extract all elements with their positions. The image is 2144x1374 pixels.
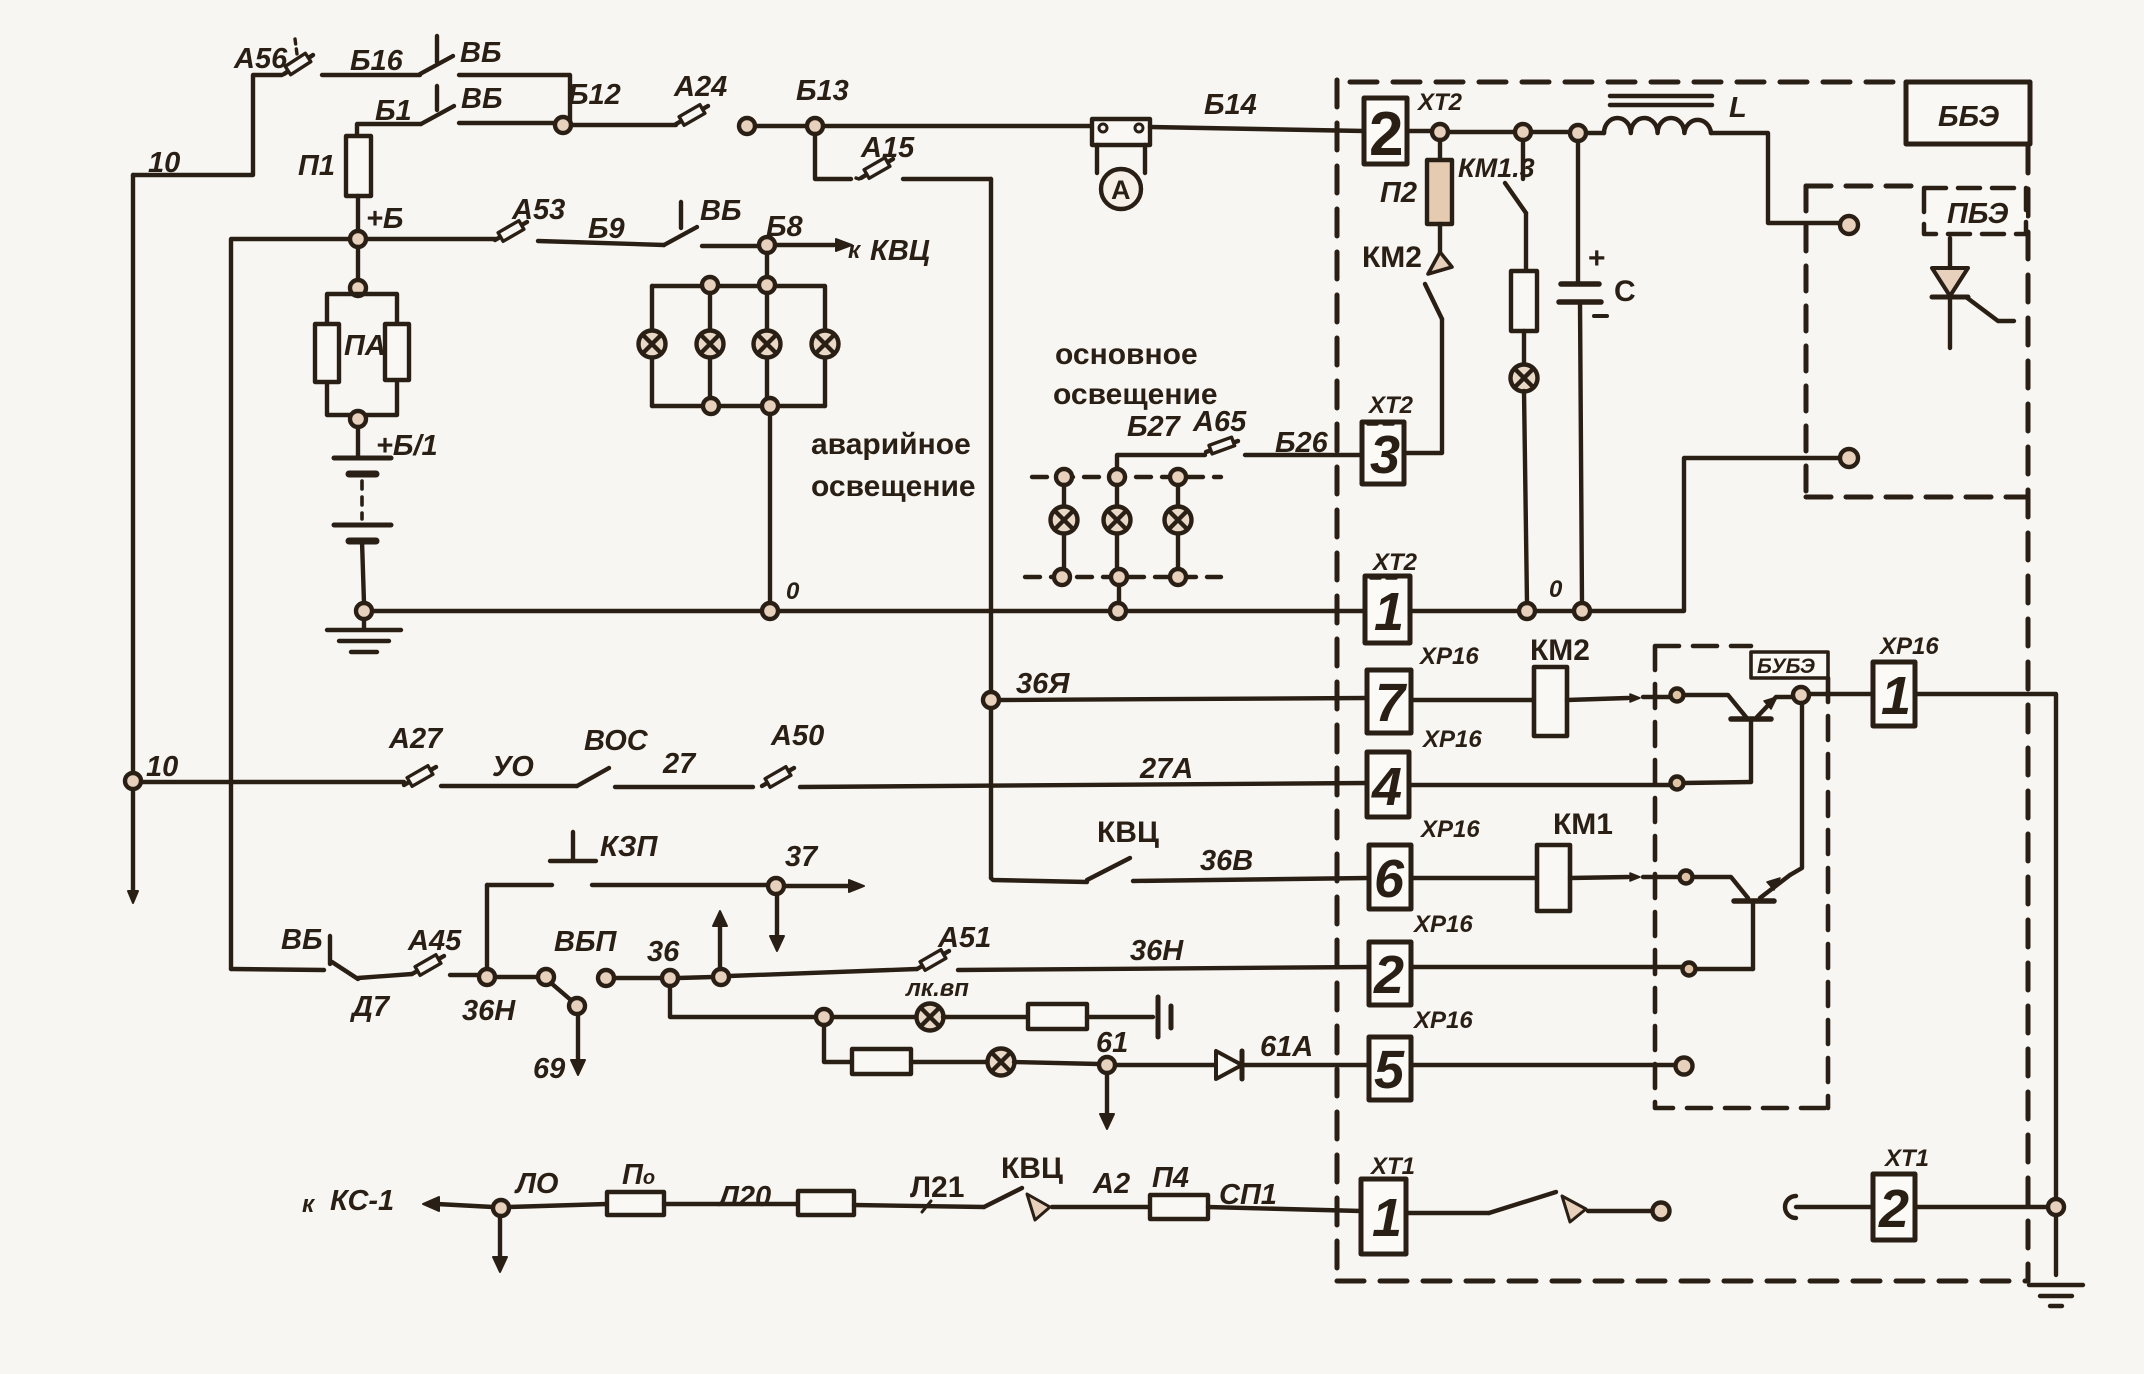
wire +B/1 to battery: [356, 427, 360, 456]
svg-text:+Б/1: +Б/1: [376, 430, 438, 462]
ammeter legs: [1097, 145, 1145, 173]
svg-text:2: 2: [1369, 100, 1403, 169]
wire to lamp LK.VP: [832, 1015, 917, 1019]
small arrowhead into BUBE (KM1 line): [1630, 873, 1640, 881]
svg-text:ХТ2: ХТ2: [1416, 89, 1463, 116]
svg-text:Б16: Б16: [350, 45, 404, 77]
ammeter shunt rect: [1092, 119, 1150, 145]
wire branch from node 36 down: [670, 986, 816, 1017]
connector XP16 pin 5 box: [1369, 1037, 1411, 1100]
fuse P2 wire top: [1438, 140, 1442, 160]
fuse body (L20 line): [798, 1191, 854, 1215]
diode V1: [1216, 1051, 1242, 1079]
connector XT2 pin 2 box: [1364, 98, 1407, 164]
wire 27A to connector XP16-4: [800, 783, 1367, 787]
svg-text:1: 1: [1374, 582, 1404, 642]
wire XP16-7 to relay KM2 coil: [1411, 698, 1534, 702]
wire to VBP common: [495, 975, 539, 979]
transistor T2 collector down: [1751, 903, 1755, 969]
svg-text:А50: А50: [770, 720, 824, 752]
wire VBP to node 36 branch: [614, 976, 662, 980]
svg-text:2: 2: [1878, 1179, 1909, 1239]
connector XT2 pin 3 box: [1362, 422, 1404, 484]
wire to terminal T2: [1643, 875, 1678, 879]
battery cell 2 long plate: [334, 523, 391, 528]
contact KM1.3 blade: [1505, 183, 1526, 213]
wire from VB2 to node B12: [459, 121, 555, 125]
terminal circle KM1 line: [1680, 871, 1693, 884]
breaker A27 body: [407, 766, 433, 787]
transistor T1 collector down: [1749, 721, 1753, 782]
wire SP1 to connector XT1-1: [1208, 1207, 1361, 1211]
arrowhead 37 right: [849, 880, 864, 892]
thyristor cathode wire: [1948, 297, 1952, 348]
svg-text:1: 1: [1372, 1188, 1402, 1248]
contact KVC blade (bottom row): [984, 1188, 1022, 1207]
wire net 10 left rail vertical: [131, 175, 135, 893]
svg-text:ВБП: ВБП: [554, 926, 617, 958]
connector XP16 pin 7 box: [1367, 670, 1411, 733]
node top of KM1.3: [1515, 124, 1531, 140]
svg-text:6: 6: [1374, 849, 1405, 909]
node VBP common: [538, 969, 554, 985]
wire k KS-1 with arrow: [437, 1204, 493, 1207]
block PBE dashed bottom edge: [1806, 495, 2026, 500]
wire XP16-1 to right rail: [1915, 694, 2056, 1275]
wire 69 down arrow: [576, 1014, 580, 1062]
node top of C: [1570, 125, 1586, 141]
block PBE label box dashed: [1924, 188, 2026, 234]
svg-text:ВБ: ВБ: [700, 195, 741, 227]
svg-text:61А: 61А: [1260, 1031, 1313, 1063]
svg-text:КМ1: КМ1: [1553, 808, 1613, 841]
battery cell 1 long plate: [334, 456, 391, 461]
wire terminal to T2 collector: [1696, 967, 1753, 971]
svg-text:освещение: освещение: [811, 470, 976, 503]
wire XP16-2 out to terminal: [1411, 965, 1681, 969]
node 36 branch lamp circuit: [662, 970, 678, 986]
wire P1 to node +B: [356, 196, 360, 231]
switch VOS blade: [577, 768, 609, 786]
wire resistor to chassis ground: [1087, 1015, 1153, 1019]
svg-text:Б8: Б8: [766, 211, 804, 243]
wire from VB1 to node B12: [459, 75, 570, 120]
node 0 net under capacitor: [1574, 603, 1590, 619]
cabinet boundary dashed left vertical: [1335, 80, 1340, 1281]
wire net 10 top horizontal to A56: [133, 75, 282, 175]
wire lamp bank down to 0 bus: [768, 414, 772, 603]
connector XP16 pin 4 box: [1367, 752, 1409, 817]
node main rail col1: [1056, 469, 1072, 485]
wire rail x991 corner to KVC: [991, 878, 1087, 882]
breaker A65 blade: [1206, 441, 1238, 452]
wire 37 right with arrow: [784, 884, 850, 888]
arrowhead 37 down: [770, 936, 784, 951]
wire to node B13: [755, 124, 807, 128]
svg-text:36Н: 36Н: [1130, 935, 1184, 967]
svg-text:к: к: [302, 1191, 316, 1218]
cabinet boundary dashed right vertical: [2026, 146, 2031, 1281]
svg-text:КС-1: КС-1: [330, 1185, 394, 1217]
svg-text:36: 36: [647, 936, 680, 968]
breaker A50 blade: [762, 768, 794, 786]
lamp LK.VP: [917, 1004, 944, 1031]
switch VB contact 1 tick: [435, 36, 439, 62]
wire XT1-1 out to KM1 contact: [1406, 1211, 1489, 1215]
wire to node KM1.3: [1448, 130, 1515, 134]
connector XT1 pin 1 box: [1361, 1179, 1406, 1254]
svg-text:к: к: [848, 237, 862, 264]
wire +B to A53: [366, 237, 495, 241]
wire KM1 coil to BUBE terminal: [1570, 877, 1628, 878]
main lamp 3: [1165, 507, 1192, 534]
ground symbol bottom right: [2029, 1285, 2083, 1306]
resistor body (61 branch): [852, 1049, 911, 1074]
thyristor cathode bar: [1932, 295, 1968, 300]
block BBE box: [1906, 82, 2030, 144]
svg-text:ВОС: ВОС: [584, 725, 649, 757]
node main bottom rail col3: [1170, 569, 1186, 585]
svg-text:69: 69: [533, 1053, 565, 1085]
wire B14 to connector XT2-2: [1150, 127, 1364, 131]
fuse P1 body: [346, 136, 371, 196]
svg-text:ПБЭ: ПБЭ: [1947, 198, 2009, 230]
emergency lamp 4: [812, 331, 839, 358]
breaker A15 blade: [861, 159, 893, 178]
wire B16: [322, 73, 420, 77]
svg-text:27: 27: [662, 748, 697, 780]
cabinet boundary dashed bottom horizontal: [1337, 1279, 2028, 1284]
wire 36 up arrow: [718, 924, 722, 969]
wire KM1.3 down to resistor: [1524, 213, 1528, 271]
terminal circle KM2 line: [1671, 689, 1684, 702]
wire KM2 contact down to XT2-3: [1406, 319, 1442, 453]
transistor T1 bar: [1731, 716, 1771, 722]
emergency lamp column 4 wires: [823, 286, 827, 406]
breaker A45 body: [415, 955, 441, 976]
main lighting bottom dashed rail: [1025, 575, 1221, 579]
contactor KM2 chevron: [1428, 252, 1452, 274]
svg-text:КМ2: КМ2: [1530, 634, 1590, 667]
breaker A15 body: [864, 158, 890, 179]
wire B8 down to lamp rail: [765, 253, 769, 278]
node net 10 lower: [125, 773, 141, 789]
wire L21 to KVC contact: [854, 1205, 984, 1207]
wire female terminal to XT1-2: [1796, 1205, 1873, 1209]
svg-text:5: 5: [1374, 1040, 1405, 1100]
svg-text:А65: А65: [1192, 406, 1247, 438]
small arrowhead into BUBE (KM2 line): [1630, 694, 1640, 702]
wire UO: [441, 784, 577, 788]
open terminal to PBE lower: [1840, 449, 1858, 467]
wire KM2 coil to BUBE terminal: [1567, 698, 1628, 700]
connector XP16 pin 6 box: [1369, 845, 1411, 909]
male terminal circle: [1653, 1203, 1670, 1220]
node right rail at XT1-2 wire: [2048, 1199, 2064, 1215]
node LO: [493, 1200, 509, 1216]
svg-text:ЛО: ЛО: [514, 1168, 559, 1200]
svg-text:Б26: Б26: [1275, 427, 1329, 459]
transistor T2 arrowhead: [1767, 878, 1780, 890]
signal lamp (KM1.3 branch): [1511, 365, 1538, 392]
inductor L coil: [1604, 118, 1711, 133]
main lamp 2: [1104, 507, 1131, 534]
svg-text:лк.вп: лк.вп: [905, 975, 969, 1002]
arrow wire k KVC: [775, 243, 834, 247]
wire to node 36 arrow: [678, 977, 713, 978]
svg-text:0: 0: [1549, 576, 1563, 603]
svg-text:КМ2: КМ2: [1362, 241, 1422, 274]
switch VB contact 4 tick: [328, 936, 332, 964]
breaker A65 body: [1209, 437, 1235, 454]
svg-text:36Н: 36Н: [462, 995, 516, 1027]
relay coil KM1: [1537, 845, 1570, 911]
contact KVC chevron: [1027, 1194, 1050, 1220]
open terminal 61A line: [1676, 1058, 1693, 1075]
switch VB contact 4 blade: [332, 962, 358, 979]
battery dashed middle: [360, 481, 364, 519]
node PA top: [350, 280, 366, 296]
svg-text:КВЦ: КВЦ: [1001, 1152, 1063, 1185]
wire 27: [615, 785, 753, 789]
svg-text:ХР16: ХР16: [1418, 643, 1479, 670]
wire KM1 to male terminal: [1588, 1209, 1652, 1213]
wire 61 down arrow: [1105, 1073, 1109, 1116]
emergency lamp column 1 wires: [650, 286, 654, 406]
svg-text:А45: А45: [407, 925, 462, 957]
wire branch 2 down: [824, 1025, 852, 1062]
node 36YA on rail: [983, 692, 999, 708]
node on lamp bottom rail (col2): [703, 398, 719, 414]
svg-text:2: 2: [1373, 945, 1404, 1005]
node B8: [759, 237, 775, 253]
fuse P2 body: [1427, 160, 1452, 224]
svg-text:Л21: Л21: [910, 1171, 964, 1204]
wire terminal to T1 collector: [1684, 782, 1751, 783]
transistor T1 emitter diagonal with arrow: [1757, 697, 1792, 717]
svg-text:аварийное: аварийное: [811, 428, 971, 461]
switch VB contact 3 blade: [664, 227, 697, 245]
thyristor anode wire: [1948, 238, 1952, 268]
resistor body (KM1.3 branch): [1511, 271, 1537, 331]
wire B27 corner into lamp rail: [1117, 455, 1205, 470]
wire node 61 to diode: [1115, 1063, 1216, 1067]
svg-text:37: 37: [785, 841, 819, 873]
wire B9: [538, 241, 664, 245]
emergency lamp top rail: [652, 284, 824, 288]
wire 36YA to connector XP16-7: [999, 698, 1367, 700]
svg-text:Б1: Б1: [375, 95, 412, 127]
node 37: [768, 878, 784, 894]
svg-text:А2: А2: [1092, 1168, 1130, 1200]
wire to terminal T1 base: [1643, 695, 1669, 699]
wire A15 to vertical 36YA rail: [903, 177, 991, 181]
node branch split: [816, 1009, 832, 1025]
svg-text:П2: П2: [1380, 177, 1417, 209]
wire XP16-4 out to terminal: [1409, 783, 1669, 787]
svg-text:ХР16: ХР16: [1419, 816, 1480, 843]
wire 36 to A51: [729, 969, 917, 976]
svg-text:А27: А27: [388, 723, 444, 755]
svg-text:10: 10: [148, 147, 180, 179]
connector XT2-1 dashed top edge: [1371, 576, 1401, 580]
wire L20: [664, 1202, 798, 1206]
wire lamp to node 61: [1014, 1062, 1099, 1064]
wire B26 to connector XT2-3: [1245, 453, 1362, 457]
node on lamp top rail (col2): [702, 277, 718, 293]
push button KZP contact wires: [487, 883, 768, 887]
wire lamp down to 0 bus: [1524, 391, 1527, 603]
open terminal to PBE upper: [1840, 216, 1858, 234]
wire main lamps to 0 bus: [1117, 585, 1121, 603]
breaker A51 body: [920, 950, 946, 971]
small tick on L21 wire: [922, 1201, 931, 1212]
svg-text:А15: А15: [860, 132, 915, 164]
breaker A24 body: [679, 105, 705, 126]
wire KZP left leg down: [485, 885, 489, 969]
ground symbol below battery: [327, 619, 401, 652]
fuse P2 wire bottom: [1438, 224, 1442, 252]
connector XT2 pin 1 box: [1365, 576, 1410, 643]
switch VB contact 3 tick: [679, 202, 683, 228]
main lamp column 2 wires: [1115, 485, 1119, 569]
node B13: [807, 118, 823, 134]
wire A15 branch from B13: [815, 134, 851, 179]
cabinet boundary dashed top horizontal: [1350, 80, 1900, 85]
breaker A15 tick: [856, 178, 859, 179]
wire resistor to lamp: [1522, 331, 1526, 365]
node B12: [555, 117, 571, 133]
connector XT2-3 dashed top edge: [1368, 422, 1398, 426]
block PBE dashed left vertical: [1804, 186, 1809, 497]
capacitor C wire bottom: [1580, 302, 1582, 603]
svg-text:П1: П1: [298, 150, 335, 182]
arrowhead k KS-1: [423, 1197, 439, 1211]
connector XP16 pin 2 box: [1369, 942, 1411, 1005]
arrowhead 61 down: [1100, 1114, 1114, 1129]
svg-text:КВЦ: КВЦ: [870, 235, 930, 267]
battery cell 2 short plate: [349, 538, 376, 545]
svg-text:0: 0: [786, 578, 800, 605]
svg-text:Б27: Б27: [1127, 411, 1182, 443]
breaker A56 dashed tick: [295, 39, 297, 54]
emergency lamp 2: [697, 331, 724, 358]
arrow end of net 10 rail: [128, 891, 138, 903]
svg-text:ХТ2: ХТ2: [1367, 392, 1414, 419]
switch VB contact 2 blade: [421, 106, 454, 124]
svg-text:ХР16: ХР16: [1421, 726, 1482, 753]
ammeter A circle: [1101, 169, 1141, 209]
block BUBE label box: [1751, 652, 1828, 678]
breaker A51 blade: [917, 951, 949, 969]
thyristor triangle: [1932, 268, 1968, 296]
connector XP16 pin 1 box right: [1873, 662, 1915, 726]
svg-text:7: 7: [1375, 673, 1408, 733]
svg-text:36В: 36В: [1200, 845, 1253, 877]
wire B13 to ammeter shunt: [823, 124, 1092, 128]
wire 36N to connector XP16-2: [958, 967, 1369, 970]
transistor T1 base-in wire: [1684, 695, 1746, 717]
battery cell 1 short plate: [349, 471, 376, 478]
wire +B left and rail 2 down: [231, 239, 350, 969]
wire node to L coil: [1586, 131, 1604, 135]
wire A45 to node 36N: [450, 973, 480, 977]
svg-text:А24: А24: [673, 71, 727, 103]
arrowhead 36 up: [713, 911, 727, 926]
svg-text:Б12: Б12: [568, 79, 621, 111]
svg-text:КМ1.3: КМ1.3: [1458, 153, 1535, 183]
svg-text:Д7: Д7: [349, 991, 391, 1023]
wire XT2-2 out to node: [1407, 129, 1432, 133]
block PBE dashed top edge: [1806, 184, 1922, 189]
contact KVC blade: [1087, 858, 1130, 880]
arrowhead LO down: [493, 1257, 507, 1272]
node BUBE output: [1793, 687, 1809, 703]
wire vertical rail x991: [989, 179, 993, 878]
node on 0 bus below main lamp bank: [1110, 603, 1126, 619]
svg-text:ХТ1: ХТ1: [1883, 1145, 1929, 1172]
svg-text:ХТ2: ХТ2: [1371, 549, 1418, 576]
svg-text:61: 61: [1096, 1027, 1128, 1059]
wire VB4 to A45: [358, 974, 412, 978]
node main bottom rail col1: [1054, 569, 1070, 585]
svg-text:ХТ1: ХТ1: [1369, 1153, 1415, 1180]
svg-text:СП1: СП1: [1219, 1179, 1277, 1211]
wire B1: [357, 124, 421, 136]
contact KM1.3 wire top: [1521, 140, 1525, 179]
emergency lamp column 2 wires: [708, 293, 712, 398]
emergency lamp 1: [639, 331, 666, 358]
terminal node after A24: [739, 118, 755, 134]
main lighting top dashed rail: [1032, 475, 1221, 479]
node after XT2-2: [1432, 124, 1448, 140]
svg-text:А53: А53: [511, 194, 565, 226]
svg-text:ХР16: ХР16: [1878, 633, 1939, 660]
node VBP throw 69: [569, 998, 585, 1014]
breaker A27 blade: [404, 767, 436, 785]
wire B12 to A24: [571, 123, 676, 127]
ammeter shunt terminal dots: [1099, 124, 1107, 132]
breaker A24 blade: [676, 106, 708, 124]
wire 0 bus: [364, 609, 1365, 613]
breaker A50 body: [765, 767, 791, 788]
svg-text:А56: А56: [233, 43, 288, 75]
fuse PA right body: [385, 324, 409, 380]
contact KM1 chevron: [1562, 1196, 1586, 1222]
wire A2 to fuse P4: [1052, 1205, 1150, 1209]
fuse P4 body: [1150, 1195, 1208, 1219]
wire battery to 0 bus node: [362, 541, 364, 603]
svg-text:С: С: [1614, 275, 1636, 308]
breaker A53 body: [498, 221, 524, 242]
wire LO down arrow: [498, 1216, 502, 1259]
svg-text:основное: основное: [1055, 338, 1198, 371]
emergency lamp 3: [754, 331, 781, 358]
diode V1 cathode bar: [1240, 1051, 1245, 1079]
switch VB contact 2 tick: [435, 86, 439, 110]
node on 0 bus below emergency lamp bank: [762, 603, 778, 619]
svg-text:Б14: Б14: [1204, 89, 1257, 121]
svg-text:+Б: +Б: [366, 203, 403, 235]
capacitor C wire top: [1576, 141, 1580, 284]
fuse Po body: [607, 1192, 664, 1215]
female terminal arc: [1785, 1196, 1796, 1218]
capacitor C plates: [1559, 284, 1601, 302]
node on lamp top rail (col3): [759, 277, 775, 293]
wire VB3 to node B8: [702, 244, 759, 248]
svg-text:А51: А51: [937, 922, 991, 954]
chassis ground bars: [1158, 997, 1171, 1037]
